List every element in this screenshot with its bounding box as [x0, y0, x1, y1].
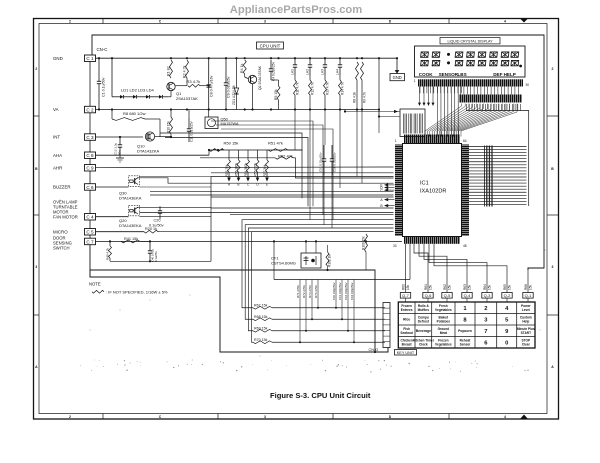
svg-text:C20: C20 — [154, 219, 161, 223]
svg-text:15k: 15k — [507, 284, 511, 290]
resistor R5 — [271, 80, 280, 110]
svg-text:R56 180k: R56 180k — [234, 162, 238, 176]
svg-text:KEY UNIT: KEY UNIT — [397, 351, 415, 355]
svg-text:Vegetables: Vegetables — [435, 343, 452, 347]
svg-text:2SA1037AK: 2SA1037AK — [176, 96, 198, 101]
resistor R3 — [187, 79, 210, 87]
transistor Q1 — [167, 78, 198, 101]
wire CPU unit boundary — [92, 35, 544, 270]
resistor R68 on key row — [245, 225, 393, 321]
svg-text:2: 2 — [484, 306, 487, 312]
svg-text:R4 1k: R4 1k — [240, 63, 244, 73]
crystal CF1 — [271, 241, 321, 268]
resistor R52 — [200, 154, 394, 179]
svg-text:R14 4.7k: R14 4.7k — [340, 82, 344, 95]
label INT — [53, 135, 60, 140]
svg-text:R70 15k: R70 15k — [254, 338, 268, 342]
capacitor-resistor LH3 — [321, 58, 330, 109]
border tick marks — [34, 19, 559, 420]
svg-text:R8 4.3k: R8 4.3k — [352, 92, 356, 103]
svg-text:C 4: C 4 — [86, 215, 94, 220]
svg-text:GND: GND — [53, 56, 63, 61]
connector pin C5 — [85, 229, 96, 236]
wire trunk x211 — [210, 177, 212, 262]
svg-text:R67 15k: R67 15k — [254, 303, 268, 307]
svg-text:R64: R64 — [483, 284, 487, 290]
svg-text:C8 0.47u/16v: C8 0.47u/16v — [209, 75, 213, 97]
svg-text:2: 2 — [35, 67, 37, 71]
label CPU UNIT — [257, 42, 284, 49]
svg-text:64: 64 — [463, 139, 467, 143]
label BUZZER — [53, 185, 71, 190]
svg-text:R53 75k: R53 75k — [225, 164, 229, 176]
wire fan lcd left — [420, 87, 461, 94]
svg-text:C60 330p/50v: C60 330p/50v — [332, 282, 336, 300]
svg-text:Breast: Breast — [402, 343, 413, 347]
lcd legend text — [419, 72, 516, 77]
resistor R67 on key row — [242, 220, 394, 309]
svg-text:Q-1: Q-1 — [525, 293, 532, 298]
wire bank rail bottom — [273, 240, 410, 279]
wire bend C — [211, 121, 313, 206]
svg-text:LIQUID CRYSTAL DISPLAY: LIQUID CRYSTAL DISPLAY — [447, 39, 493, 43]
svg-text:2: 2 — [69, 20, 71, 24]
key matrix table labels — [400, 304, 535, 346]
svg-text:2: 2 — [69, 415, 71, 419]
svg-text:AHA: AHA — [53, 153, 62, 158]
connector pin C9 — [85, 165, 96, 172]
svg-text:Clear: Clear — [522, 343, 531, 347]
ic right hatch block — [484, 146, 493, 207]
wire bus risers — [467, 104, 521, 111]
svg-text:Seafood: Seafood — [400, 331, 413, 335]
specks — [60, 200, 546, 373]
svg-text:R61: R61 — [424, 284, 428, 290]
svg-text:R3 4.7k: R3 4.7k — [187, 79, 201, 84]
wire lcd diagonal bundle — [425, 104, 517, 137]
label OVEN LAMP — [53, 200, 78, 220]
svg-text:R51 47k: R51 47k — [268, 141, 283, 146]
border frame — [34, 19, 559, 420]
ic IC1 left pin band — [395, 145, 402, 236]
wire AHA row — [96, 150, 210, 155]
capacitor bank C60-C63 — [332, 280, 355, 344]
connector pin C6 — [85, 184, 96, 191]
transistor Q10 — [137, 132, 171, 154]
svg-text:R1 82: R1 82 — [166, 66, 170, 76]
capacitor C50 — [330, 145, 337, 175]
lcd seven-segment digits — [421, 52, 522, 68]
lcd connector row — [414, 79, 530, 87]
svg-text:30: 30 — [526, 83, 530, 87]
svg-text:LD1 LD2 LD3 LD4: LD1 LD2 LD3 LD4 — [121, 88, 154, 93]
wire IC to key flags — [406, 244, 508, 268]
ic IC1 right pin band — [462, 145, 469, 236]
svg-text:LH3: LH3 — [321, 69, 325, 75]
svg-text:0: 0 — [505, 340, 508, 346]
svg-text:15k: 15k — [467, 284, 471, 290]
capacitor C11 — [187, 110, 194, 143]
resistors R60-R66 — [401, 268, 532, 293]
svg-text:Sensor: Sensor — [460, 343, 472, 347]
svg-text:C50 0.01u/25v: C50 0.01u/25v — [333, 152, 337, 172]
svg-text:MICRO: MICRO — [53, 229, 68, 234]
svg-text:R102 1M: R102 1M — [328, 254, 332, 267]
resistor bank R53-R57 — [225, 150, 269, 187]
svg-text:LH2: LH2 — [306, 69, 310, 75]
svg-text:15k: 15k — [528, 284, 532, 290]
wire bend B — [165, 138, 308, 207]
diodes LD1 LD2 LD3 LD4 — [112, 58, 168, 98]
capacitor-resistor LH2 — [306, 58, 315, 109]
label KEY UNIT — [395, 350, 417, 356]
svg-text:INT: INT — [53, 135, 60, 140]
svg-text:R63: R63 — [463, 284, 467, 290]
svg-text:COOK: COOK — [419, 72, 433, 77]
svg-text:DTA143ZKA: DTA143ZKA — [137, 149, 159, 154]
capacitor C20 — [149, 206, 164, 227]
svg-text:C51 0.01u/25v: C51 0.01u/25v — [319, 152, 323, 172]
svg-text:ZD1 UZ24.3B: ZD1 UZ24.3B — [232, 86, 236, 106]
svg-text:R68 15k: R68 15k — [254, 315, 268, 319]
svg-text:LH1: LH1 — [291, 69, 295, 75]
svg-text:Q2 2SA1037AK: Q2 2SA1037AK — [258, 65, 262, 90]
flag Q-3 — [482, 293, 492, 303]
ic pin numbers — [393, 139, 467, 248]
flag Q-5 — [442, 293, 452, 303]
resistor R50 — [209, 141, 238, 152]
label VA — [53, 107, 59, 112]
wire bend E — [221, 129, 333, 220]
lcd display box — [415, 46, 526, 77]
connector pin C3 — [85, 134, 96, 141]
wire CN-C to CN-G run 2 — [90, 270, 388, 353]
svg-text:2: 2 — [552, 67, 554, 71]
svg-text:R13 4.7k: R13 4.7k — [325, 82, 329, 95]
svg-text:IC1: IC1 — [420, 181, 429, 187]
svg-text:33: 33 — [393, 244, 397, 248]
ic IC1 top pin band — [404, 135, 460, 144]
svg-text:DEF: DEF — [493, 72, 502, 77]
svg-text:GND: GND — [393, 75, 402, 80]
svg-text:R72 270k: R72 270k — [302, 285, 306, 298]
flag Q-7 — [400, 293, 410, 303]
svg-text:CN-C: CN-C — [97, 47, 108, 52]
resistor R41 — [121, 237, 150, 243]
svg-text:FAN MOTOR: FAN MOTOR — [53, 215, 78, 220]
resistor R70 on key row — [252, 232, 394, 344]
svg-text:1: 1 — [395, 139, 397, 143]
svg-text:15k: 15k — [428, 284, 432, 290]
ic IC1 bottom pin band — [404, 237, 460, 244]
svg-text:R73 270k: R73 270k — [308, 285, 312, 298]
svg-text:R41 15k: R41 15k — [124, 237, 138, 241]
resistor R9 — [361, 62, 367, 110]
wire CN-C connector chain — [89, 62, 91, 239]
svg-text:R74 270k: R74 270k — [314, 285, 318, 298]
svg-text:0.1u/25v: 0.1u/25v — [154, 251, 158, 262]
svg-text:Potatoes: Potatoes — [437, 320, 451, 324]
svg-text:C 2: C 2 — [86, 108, 94, 113]
svg-text:R2 4.7k: R2 4.7k — [182, 65, 186, 78]
label CN-C — [97, 47, 108, 52]
svg-text:R8 680 1/2w: R8 680 1/2w — [123, 111, 146, 116]
svg-text:R57 39k: R57 39k — [263, 164, 267, 176]
svg-text:Q-3: Q-3 — [484, 293, 491, 298]
svg-text:R69 15k: R69 15k — [254, 326, 268, 330]
label AHR — [53, 165, 62, 170]
svg-text:Q-5: Q-5 — [444, 293, 451, 298]
resistor R69 on key row — [248, 228, 393, 332]
svg-text:Clock: Clock — [419, 343, 428, 347]
wire bus arrows — [380, 183, 394, 208]
transistor Q20 — [119, 205, 142, 228]
svg-text:1: 1 — [414, 79, 416, 83]
wire bus verticals — [295, 110, 379, 229]
label AHA — [53, 153, 62, 158]
wire bus IC right — [469, 147, 527, 205]
svg-text:C62 330p/50v: C62 330p/50v — [344, 282, 348, 300]
zener ZD1 — [232, 58, 239, 109]
resistor R1 — [166, 60, 172, 78]
capacitor C9 — [224, 58, 231, 109]
wire BUZZER row — [96, 186, 129, 188]
resistor R40 — [105, 241, 111, 261]
resistor R100 — [361, 234, 367, 270]
lamp block — [400, 109, 425, 137]
svg-text:IXA102DR: IXA102DR — [420, 189, 446, 195]
svg-text:C63 330p/50v: C63 330p/50v — [350, 282, 354, 300]
svg-text:C 3: C 3 — [86, 135, 94, 140]
svg-text:R5 15k: R5 15k — [274, 89, 278, 100]
svg-text:AppliancePartsPros.com: AppliancePartsPros.com — [230, 4, 362, 16]
key matrix table grid — [398, 302, 535, 348]
svg-text:: IF NOT SPECIFIED, 1/16W ±: : IF NOT SPECIFIED, 1/16W ± 5% — [106, 289, 168, 294]
caption Figure S-3 — [270, 391, 371, 400]
svg-text:Beverage: Beverage — [416, 329, 431, 333]
svg-text:R54 300k: R54 300k — [244, 162, 248, 176]
svg-text:50v: 50v — [117, 150, 121, 155]
svg-text:C 6: C 6 — [86, 185, 94, 190]
resistor R8 — [112, 110, 160, 138]
flag Q-1 — [523, 293, 533, 303]
svg-text:R9 4.7k: R9 4.7k — [362, 92, 366, 103]
svg-text:DTA143EKA: DTA143EKA — [119, 223, 142, 228]
svg-text:3: 3 — [264, 20, 266, 24]
svg-text:C 7: C 7 — [86, 239, 94, 244]
svg-text:SWITCH: SWITCH — [53, 246, 70, 251]
svg-text:R71 270k: R71 270k — [296, 285, 300, 298]
svg-text:START: START — [521, 331, 531, 335]
resistor R51 — [268, 141, 303, 152]
svg-text:LBS: LBS — [458, 72, 467, 77]
flag Q-4 — [462, 293, 472, 303]
capacitor C51 — [319, 145, 327, 175]
wire bend A — [160, 133, 302, 198]
transistor Q30 — [119, 176, 142, 201]
resistor R102 — [326, 245, 332, 270]
wire lcd to lamp block — [418, 87, 435, 107]
capacitor-resistor LH4 — [336, 58, 345, 109]
svg-text:Meat: Meat — [440, 331, 448, 335]
wire GND rail — [96, 57, 399, 59]
resistor bank R71-R74 — [296, 280, 319, 344]
svg-text:15k: 15k — [487, 284, 491, 290]
svg-text:R62: R62 — [443, 284, 447, 290]
svg-text:C 5: C 5 — [86, 230, 94, 235]
wire Q2 emitter — [251, 84, 253, 111]
svg-text:Vegetables: Vegetables — [435, 308, 452, 312]
label GND — [53, 56, 63, 61]
resistor R10 — [166, 110, 172, 138]
svg-text:CN-G: CN-G — [369, 348, 379, 352]
wire bus to IC1 left — [150, 173, 394, 215]
wire Q30 out — [137, 177, 211, 188]
wire AHR row — [96, 166, 394, 169]
svg-text:Q-6: Q-6 — [425, 293, 432, 298]
svg-text:CPU UNIT: CPU UNIT — [260, 44, 281, 49]
svg-text:C9 0.01u/25v: C9 0.01u/25v — [227, 76, 231, 98]
svg-text:C 1: C 1 — [86, 56, 94, 61]
svg-text:15k: 15k — [447, 284, 451, 290]
svg-text:15k: 15k — [406, 284, 410, 290]
svg-text:Q-2: Q-2 — [504, 293, 511, 298]
label LIQUID CRYSTAL DISPLAY — [440, 38, 500, 44]
svg-text:Defrost: Defrost — [418, 320, 430, 324]
lamp block hatch — [404, 114, 423, 134]
wire bus IC right outline — [466, 111, 529, 207]
wire DOOR bottom — [110, 241, 211, 262]
capacitor C12 — [114, 137, 124, 162]
wire bend D — [216, 125, 323, 215]
svg-text:DTA143EKA: DTA143EKA — [119, 196, 142, 201]
wire OVEN row — [96, 216, 129, 218]
svg-text:Muffins: Muffins — [418, 308, 430, 312]
svg-text:R12 4.7k: R12 4.7k — [310, 82, 314, 95]
wire VA rail — [96, 108, 381, 110]
svg-text:C1 0.1u/50v: C1 0.1u/50v — [102, 77, 106, 97]
svg-text:Q-7: Q-7 — [402, 293, 409, 298]
svg-text:C4 0.01u/25v: C4 0.01u/25v — [272, 62, 276, 81]
wire fan lcd right — [461, 87, 519, 95]
note text — [89, 282, 168, 295]
wire CN-C to CN-G run — [90, 245, 375, 352]
svg-text:NOTE: NOTE — [89, 282, 101, 287]
svg-text:MA152WA: MA152WA — [221, 122, 239, 126]
svg-text:R11 4.7k: R11 4.7k — [295, 82, 299, 95]
svg-text:3: 3 — [264, 415, 266, 419]
connector pin C8 — [85, 152, 96, 159]
svg-text:R65: R65 — [503, 284, 507, 290]
label MICRO — [53, 229, 68, 234]
svg-text:Help: Help — [522, 320, 529, 324]
wire crystal rail — [251, 240, 402, 242]
flag Q-6 — [423, 293, 433, 303]
wire door to crystal — [121, 240, 251, 242]
capacitor C1 — [97, 58, 106, 109]
svg-text:R60: R60 — [401, 284, 405, 290]
capacitor C8 — [207, 58, 214, 109]
svg-text:VA: VA — [53, 107, 59, 112]
svg-text:R20 1k: R20 1k — [145, 227, 157, 231]
svg-text:R66: R66 — [524, 284, 528, 290]
svg-text:Q-4: Q-4 — [464, 293, 471, 298]
svg-text:HELP: HELP — [504, 72, 516, 77]
transistor Q2 — [245, 65, 262, 90]
capacitor C40 — [148, 241, 158, 262]
ic IC1 body — [403, 144, 462, 237]
svg-text:CSTS4.60MG: CSTS4.60MG — [271, 261, 296, 266]
svg-text:C61 330p/50v: C61 330p/50v — [338, 282, 342, 300]
svg-text:3: 3 — [552, 265, 554, 269]
connector pin C2 — [85, 106, 96, 113]
svg-text:4: 4 — [504, 415, 506, 419]
gnd flag GND — [390, 58, 405, 80]
connector pin C1 — [85, 55, 96, 62]
lcd connector row B — [459, 95, 522, 103]
svg-text:Rice: Rice — [403, 318, 410, 322]
svg-text:4: 4 — [504, 20, 506, 24]
label DOOR — [53, 236, 72, 251]
wire Q20 out — [137, 207, 211, 216]
svg-text:C 9: C 9 — [86, 166, 94, 171]
flag Q-2 — [502, 293, 512, 303]
wire bank rail — [208, 149, 303, 151]
capacitor-resistor LH1 — [291, 58, 300, 109]
transistor Q50 — [205, 110, 239, 129]
svg-text:C 8: C 8 — [86, 153, 94, 158]
svg-text:AHR: AHR — [53, 165, 62, 170]
svg-text:Entrees: Entrees — [401, 308, 413, 312]
svg-text:BUZZER: BUZZER — [53, 185, 71, 190]
wire lamp feed — [344, 110, 400, 118]
svg-text:48: 48 — [463, 244, 467, 248]
connector pin C7 — [85, 238, 96, 245]
watermark AppliancePartsPros.com — [230, 4, 362, 16]
wire INT row — [96, 136, 173, 138]
resistor R8a — [352, 62, 358, 110]
svg-text:LH4: LH4 — [336, 69, 340, 75]
resistor R20 — [96, 227, 393, 233]
svg-text:R40 4.7k: R40 4.7k — [105, 247, 109, 260]
connector pin C4 — [85, 214, 96, 221]
svg-text:R10 15k: R10 15k — [166, 121, 170, 133]
svg-text:Figure S-3. CPU Unit Circuit: Figure S-3. CPU Unit Circuit — [270, 391, 371, 400]
svg-text:R100 15k: R100 15k — [361, 236, 365, 250]
resistor R2 — [182, 60, 188, 78]
label CN-G — [369, 348, 379, 352]
svg-text:SENSOR: SENSOR — [439, 72, 459, 77]
svg-text:3: 3 — [35, 265, 37, 269]
svg-text:Popcorn: Popcorn — [458, 329, 472, 333]
svg-text:Level: Level — [522, 308, 530, 312]
resistor R4 — [240, 60, 246, 74]
wire DOOR row — [96, 240, 151, 242]
capacitor C4 — [269, 60, 276, 81]
wire feed — [378, 58, 380, 109]
svg-text:R55 620k: R55 620k — [253, 162, 257, 176]
wire lcd mid fan — [438, 87, 459, 137]
svg-text:C11 0.01u/25v: C11 0.01u/25v — [190, 121, 194, 142]
svg-text:R50 15k: R50 15k — [224, 141, 239, 146]
wire crystal bottom — [302, 269, 366, 271]
connector CN-G strip — [383, 303, 390, 348]
svg-text:7: 7 — [484, 329, 487, 335]
